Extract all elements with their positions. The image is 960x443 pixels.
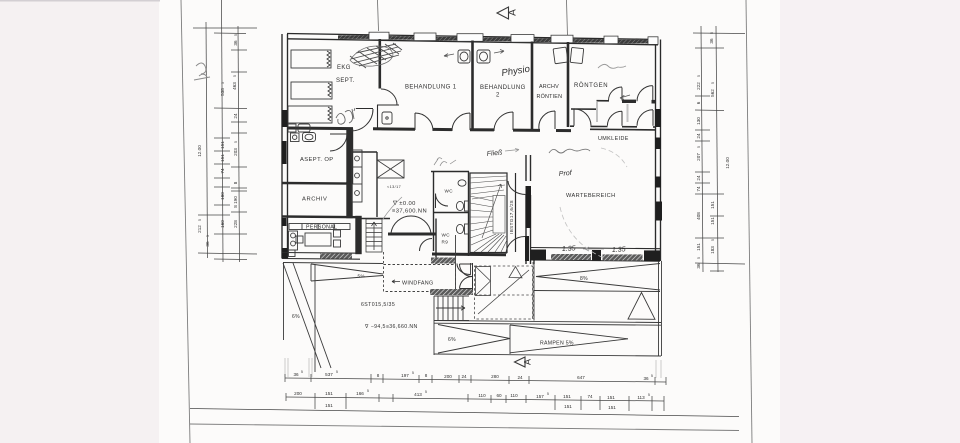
svg-text:24: 24 [696, 175, 701, 181]
svg-text:24: 24 [696, 133, 701, 139]
svg-text:24: 24 [517, 375, 523, 380]
svg-text:36: 36 [205, 241, 210, 247]
svg-text:151: 151 [696, 243, 701, 251]
svg-text:1.35: 1.35 [612, 246, 626, 254]
svg-text:24: 24 [233, 113, 238, 119]
svg-text:36: 36 [293, 372, 299, 377]
svg-text:157: 157 [536, 394, 544, 399]
svg-text:WC: WC [445, 189, 454, 194]
svg-text:6%: 6% [292, 314, 300, 320]
svg-text:228: 228 [233, 220, 238, 228]
svg-text:5: 5 [697, 75, 701, 77]
svg-text:151: 151 [608, 405, 616, 410]
svg-text:24: 24 [461, 374, 467, 379]
svg-text:EKG: EKG [337, 65, 351, 71]
svg-text:151: 151 [564, 404, 572, 409]
svg-text:151: 151 [710, 201, 715, 209]
svg-text:ARCHIV: ARCHIV [302, 197, 328, 203]
svg-text:200: 200 [444, 374, 452, 379]
svg-text:Prof: Prof [559, 170, 573, 178]
svg-text:151: 151 [325, 391, 333, 396]
svg-text:110: 110 [510, 393, 518, 398]
svg-text:8: 8 [233, 181, 238, 184]
svg-text:ASEPT. OP: ASEPT. OP [300, 157, 334, 163]
svg-text:538: 538 [220, 88, 225, 96]
svg-text:<13/17: <13/17 [387, 185, 401, 189]
svg-text:463: 463 [232, 82, 237, 90]
svg-text:36: 36 [643, 376, 649, 381]
svg-text:5: 5 [412, 371, 414, 375]
svg-text:8%: 8% [580, 276, 588, 282]
svg-text:≡37,600.NN: ≡37,600.NN [392, 209, 427, 215]
svg-text:5: 5 [221, 82, 225, 84]
svg-text:110: 110 [478, 393, 486, 398]
svg-text:A: A [523, 359, 533, 365]
svg-text:151: 151 [710, 217, 715, 225]
svg-text:537: 537 [325, 372, 333, 377]
svg-text:A: A [508, 9, 519, 16]
svg-text:151: 151 [563, 394, 571, 399]
svg-text:8: 8 [425, 373, 428, 378]
svg-text:5: 5 [710, 32, 714, 34]
svg-text:R9: R9 [442, 240, 449, 245]
svg-text:280: 280 [491, 374, 499, 379]
svg-text:5: 5 [547, 392, 549, 396]
svg-text:5: 5 [233, 75, 237, 77]
svg-text:5: 5 [648, 393, 650, 397]
svg-text:647: 647 [577, 375, 585, 380]
svg-text:5: 5 [711, 82, 715, 84]
svg-text:12.00: 12.00 [197, 145, 202, 157]
svg-text:183: 183 [710, 246, 715, 254]
svg-text:151: 151 [607, 395, 615, 400]
svg-text:180: 180 [220, 192, 225, 200]
svg-text:6ST015,5/35: 6ST015,5/35 [361, 302, 395, 308]
svg-text:166: 166 [356, 391, 364, 396]
svg-text:WC: WC [442, 233, 451, 238]
svg-text:5%: 5% [358, 274, 365, 279]
svg-text:74: 74 [587, 394, 593, 399]
svg-text:160: 160 [220, 220, 225, 228]
svg-text:12.00: 12.00 [725, 157, 730, 169]
svg-text:8 190: 8 190 [233, 196, 238, 208]
svg-text:212: 212 [197, 225, 202, 233]
svg-text:200: 200 [294, 391, 302, 396]
svg-text:5: 5 [206, 235, 210, 237]
svg-text:151: 151 [220, 154, 225, 162]
svg-text:74: 74 [220, 168, 225, 174]
svg-text:WINDFANG: WINDFANG [402, 281, 433, 287]
svg-text:413: 413 [414, 392, 422, 397]
svg-text:RÖNTIEN: RÖNTIEN [537, 93, 563, 100]
svg-text:5: 5 [234, 141, 238, 143]
svg-text:222: 222 [696, 82, 701, 90]
svg-text:∇ −94,5≡36,660.NN: ∇ −94,5≡36,660.NN [364, 324, 418, 330]
svg-text:WARTEBEREICH: WARTEBEREICH [566, 193, 616, 199]
svg-text:197: 197 [401, 373, 409, 378]
svg-text:BEHANDLUNG 1: BEHANDLUNG 1 [405, 85, 457, 91]
svg-text:5: 5 [336, 370, 338, 374]
svg-text:151: 151 [325, 403, 333, 408]
svg-text:207: 207 [696, 153, 701, 161]
svg-text:5: 5 [301, 370, 303, 374]
svg-text:5: 5 [198, 219, 202, 221]
svg-text:IBSTG17,6/28: IBSTG17,6/28 [509, 200, 514, 234]
svg-text:SEPT.: SEPT. [336, 78, 355, 84]
svg-text:2: 2 [496, 93, 500, 99]
svg-text:74: 74 [696, 186, 701, 192]
svg-text:6: 6 [696, 101, 701, 104]
svg-text:BEHANDLUNG: BEHANDLUNG [480, 85, 526, 91]
svg-text:1.35: 1.35 [562, 245, 576, 253]
svg-text:36: 36 [709, 38, 714, 44]
svg-text:5: 5 [697, 257, 701, 259]
svg-text:36: 36 [696, 263, 701, 269]
svg-text:36: 36 [233, 40, 238, 46]
svg-text:203: 203 [233, 148, 238, 156]
svg-text:562: 562 [710, 89, 715, 97]
svg-text:5: 5 [697, 146, 701, 148]
svg-text:ARCHV: ARCHV [539, 84, 559, 90]
svg-text:5: 5 [425, 390, 427, 394]
svg-text:5: 5 [367, 389, 369, 393]
svg-text:5: 5 [651, 374, 653, 378]
svg-text:5: 5 [711, 239, 715, 241]
svg-text:8: 8 [377, 373, 380, 378]
svg-text:6%: 6% [448, 337, 456, 343]
svg-text:151: 151 [220, 141, 225, 149]
svg-text:113: 113 [637, 395, 645, 400]
svg-text:408: 408 [696, 212, 701, 220]
svg-text:RÖNTGEN: RÖNTGEN [574, 82, 608, 89]
svg-text:UMKLEIDE: UMKLEIDE [598, 136, 629, 142]
svg-text:PERSONAL: PERSONAL [306, 225, 337, 231]
svg-text:130: 130 [696, 117, 701, 125]
svg-text:RAMPEN 5%: RAMPEN 5% [540, 341, 574, 347]
svg-text:60: 60 [496, 393, 502, 398]
svg-text:5: 5 [234, 34, 238, 36]
